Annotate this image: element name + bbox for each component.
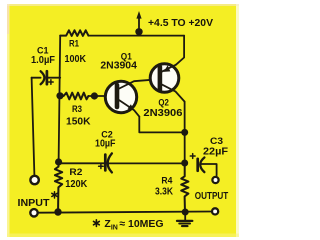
terminal output bottom: [212, 208, 218, 214]
wire Q1 emitter down and right: [139, 117, 184, 133]
junction dot power rail: [135, 28, 142, 35]
svg-text:10µF: 10µF: [95, 139, 116, 150]
resistor R3: [64, 93, 89, 100]
ground: [177, 212, 192, 226]
terminal input top: [30, 176, 38, 184]
svg-text:2N3904: 2N3904: [100, 61, 137, 72]
resistor R2: [55, 162, 62, 208]
transistor Q1: [105, 79, 157, 116]
svg-text:1.0µF: 1.0µF: [31, 55, 55, 66]
wire top rail: [88, 35, 184, 37]
capacitor C3: [198, 158, 217, 176]
svg-text:R3: R3: [72, 104, 82, 114]
svg-text:R2: R2: [69, 167, 82, 177]
svg-text:C3: C3: [210, 136, 223, 146]
wire R3 to Q1 base: [88, 95, 114, 97]
svg-text:150K: 150K: [66, 116, 91, 127]
svg-text:2N3906: 2N3906: [143, 108, 182, 119]
wire bottom rail: [39, 212, 211, 213]
junction dot R3 right: [91, 92, 98, 99]
wire power corner down to Q2 emitter: [176, 36, 184, 65]
note asterisk: [94, 220, 100, 227]
junction dot emitter/collector node: [181, 129, 188, 136]
svg-text:Q2: Q2: [158, 98, 169, 108]
svg-text:INPUT: INPUT: [18, 197, 51, 209]
svg-text:120K: 120K: [65, 179, 88, 190]
wire input to C1: [32, 77, 41, 79]
svg-text:100K: 100K: [65, 54, 87, 65]
junction dot R2 bottom: [54, 208, 61, 215]
svg-text:3.3K: 3.3K: [155, 187, 174, 198]
terminal output top: [212, 177, 218, 183]
capacitor C1: [41, 71, 61, 84]
resistor R1: [60, 30, 88, 36]
C3 plus sign: [190, 154, 195, 159]
yellow card background: [7, 4, 239, 237]
C2 plus sign: [99, 164, 104, 169]
power arrow +V: [136, 11, 141, 30]
terminal input bottom: [30, 209, 37, 216]
transistor Q2: [150, 64, 184, 102]
svg-text:22µF: 22µF: [203, 146, 228, 157]
svg-text:R4: R4: [161, 175, 173, 185]
junction dot ground: [182, 209, 189, 216]
svg-text:R1: R1: [69, 39, 79, 49]
svg-text:OUTPUT: OUTPUT: [195, 191, 229, 202]
wire C2 left: [59, 162, 104, 164]
junction dot R2 top: [55, 158, 62, 165]
asterisk near R2: [52, 192, 57, 198]
wire left rail vertical: [59, 36, 61, 162]
wire Q2 collector vertical: [184, 102, 186, 163]
svg-text:+4.5 TO +20V: +4.5 TO +20V: [148, 17, 213, 29]
resistor R4: [181, 166, 188, 209]
junction dot R3 left: [56, 92, 63, 99]
wire input vertical: [32, 78, 35, 176]
capacitor C2: [105, 153, 184, 172]
C1 plus sign: [49, 80, 54, 85]
junction dot output node: [181, 160, 188, 167]
